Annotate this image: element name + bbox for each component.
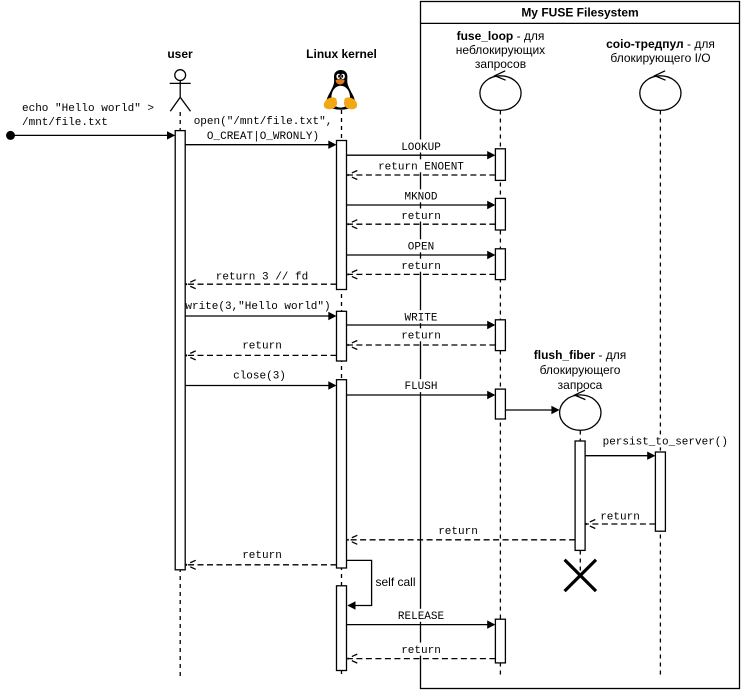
- lifeline fuse_loop (dashed): [499, 111, 501, 677]
- svg-text:блокирующего I/O: блокирующего I/O: [610, 51, 710, 65]
- svg-text:неблокирующих: неблокирующих: [456, 43, 545, 57]
- activation fuse MKNOD: [495, 198, 505, 230]
- message self call: [347, 560, 372, 605]
- svg-text:user: user: [167, 47, 193, 61]
- activation kernel 4: [337, 586, 347, 671]
- svg-text:write(3,"Hello world"): write(3,"Hello world"): [185, 301, 330, 313]
- message create flush_fiber: [505, 409, 551, 411]
- svg-text:RELEASE: RELEASE: [398, 611, 445, 623]
- activation kernel 1: [337, 141, 347, 290]
- message return (coio): [586, 523, 655, 525]
- message return ENOENT: [348, 174, 495, 176]
- message return (RELEASE): [348, 658, 495, 660]
- svg-text:return: return: [438, 526, 478, 538]
- svg-text:Linux kernel: Linux kernel: [306, 47, 377, 61]
- svg-text:return 3 // fd: return 3 // fd: [216, 271, 308, 283]
- svg-text:return: return: [401, 331, 441, 343]
- svg-text:return ENOENT: return ENOENT: [378, 162, 464, 174]
- svg-text:close(3): close(3): [233, 370, 286, 382]
- control symbol coio: [640, 71, 681, 111]
- message return (to user, final): [187, 564, 337, 566]
- message return (WRITE): [348, 344, 495, 346]
- message persist_to_server: [585, 455, 648, 457]
- svg-text:return: return: [401, 261, 441, 273]
- message found echo: [6, 131, 15, 140]
- svg-text:блокирующего: блокирующего: [540, 363, 621, 377]
- svg-text:return: return: [242, 550, 282, 562]
- svg-text:return: return: [401, 211, 441, 223]
- frame My FUSE Filesystem: [421, 2, 740, 689]
- lifeline Linux kernel (dashed): [341, 110, 343, 676]
- control symbol fuse_loop: [480, 71, 521, 111]
- activation fuse RELEASE: [495, 619, 505, 663]
- svg-text:persist_to_server(): persist_to_server(): [603, 437, 728, 449]
- activation flush_fiber: [575, 441, 585, 550]
- lifeline flush_fiber (dashed, short): [579, 431, 581, 574]
- message return (to user, write): [187, 354, 337, 356]
- message return (MKNOD): [348, 223, 495, 225]
- activation fuse WRITE: [495, 320, 505, 351]
- svg-text:return: return: [401, 645, 441, 657]
- svg-text:LOOKUP: LOOKUP: [401, 142, 441, 154]
- message RELEASE: [347, 624, 488, 626]
- destruction X flush_fiber: [565, 560, 596, 591]
- svg-text:O_CREAT|O_WRONLY): O_CREAT|O_WRONLY): [207, 131, 319, 143]
- message WRITE: [347, 324, 488, 326]
- actor user: [170, 70, 191, 112]
- svg-text:WRITE: WRITE: [404, 312, 437, 324]
- svg-text:echo "Hello world" >: echo "Hello world" >: [22, 103, 154, 115]
- message MKNOD: [347, 204, 488, 206]
- Tux Linux kernel icon: [324, 70, 357, 110]
- message return (flush to kernel): [348, 539, 575, 541]
- svg-text:coio-тредпул - для: coio-тредпул - для: [606, 37, 715, 51]
- activation fuse OPEN: [495, 249, 505, 280]
- message write: [185, 315, 329, 317]
- control symbol flush_fiber: [560, 390, 601, 430]
- svg-text:open("/mnt/file.txt",: open("/mnt/file.txt",: [194, 116, 333, 128]
- svg-text:fuse_loop - для: fuse_loop - для: [457, 29, 545, 43]
- lifeline coio (dashed): [659, 111, 661, 677]
- activation fuse FLUSH: [495, 389, 505, 419]
- svg-text:self call: self call: [376, 575, 416, 589]
- message close(3): [185, 385, 329, 387]
- message LOOKUP: [347, 154, 488, 156]
- svg-text:запроса: запроса: [558, 378, 603, 392]
- svg-text:/mnt/file.txt: /mnt/file.txt: [22, 117, 108, 129]
- activation kernel 2: [337, 311, 347, 361]
- message OPEN: [347, 254, 488, 256]
- message open: [185, 144, 329, 146]
- activation fuse LOOKUP: [495, 149, 505, 181]
- svg-text:FLUSH: FLUSH: [404, 381, 437, 393]
- message return (OPEN): [348, 273, 495, 275]
- svg-text:return: return: [600, 511, 640, 523]
- svg-text:OPEN: OPEN: [408, 242, 434, 254]
- message FLUSH: [347, 394, 488, 396]
- lifeline user (dashed): [179, 112, 181, 676]
- svg-text:flush_fiber - для: flush_fiber - для: [534, 348, 627, 362]
- svg-text:return: return: [242, 341, 282, 353]
- activation user: [175, 131, 185, 570]
- svg-text:My FUSE Filesystem: My FUSE Filesystem: [521, 6, 638, 20]
- message return 3 // fd: [187, 283, 337, 285]
- activation kernel 3: [337, 380, 347, 568]
- svg-text:запросов: запросов: [475, 57, 526, 71]
- activation coio: [655, 452, 665, 531]
- svg-text:MKNOD: MKNOD: [404, 192, 437, 204]
